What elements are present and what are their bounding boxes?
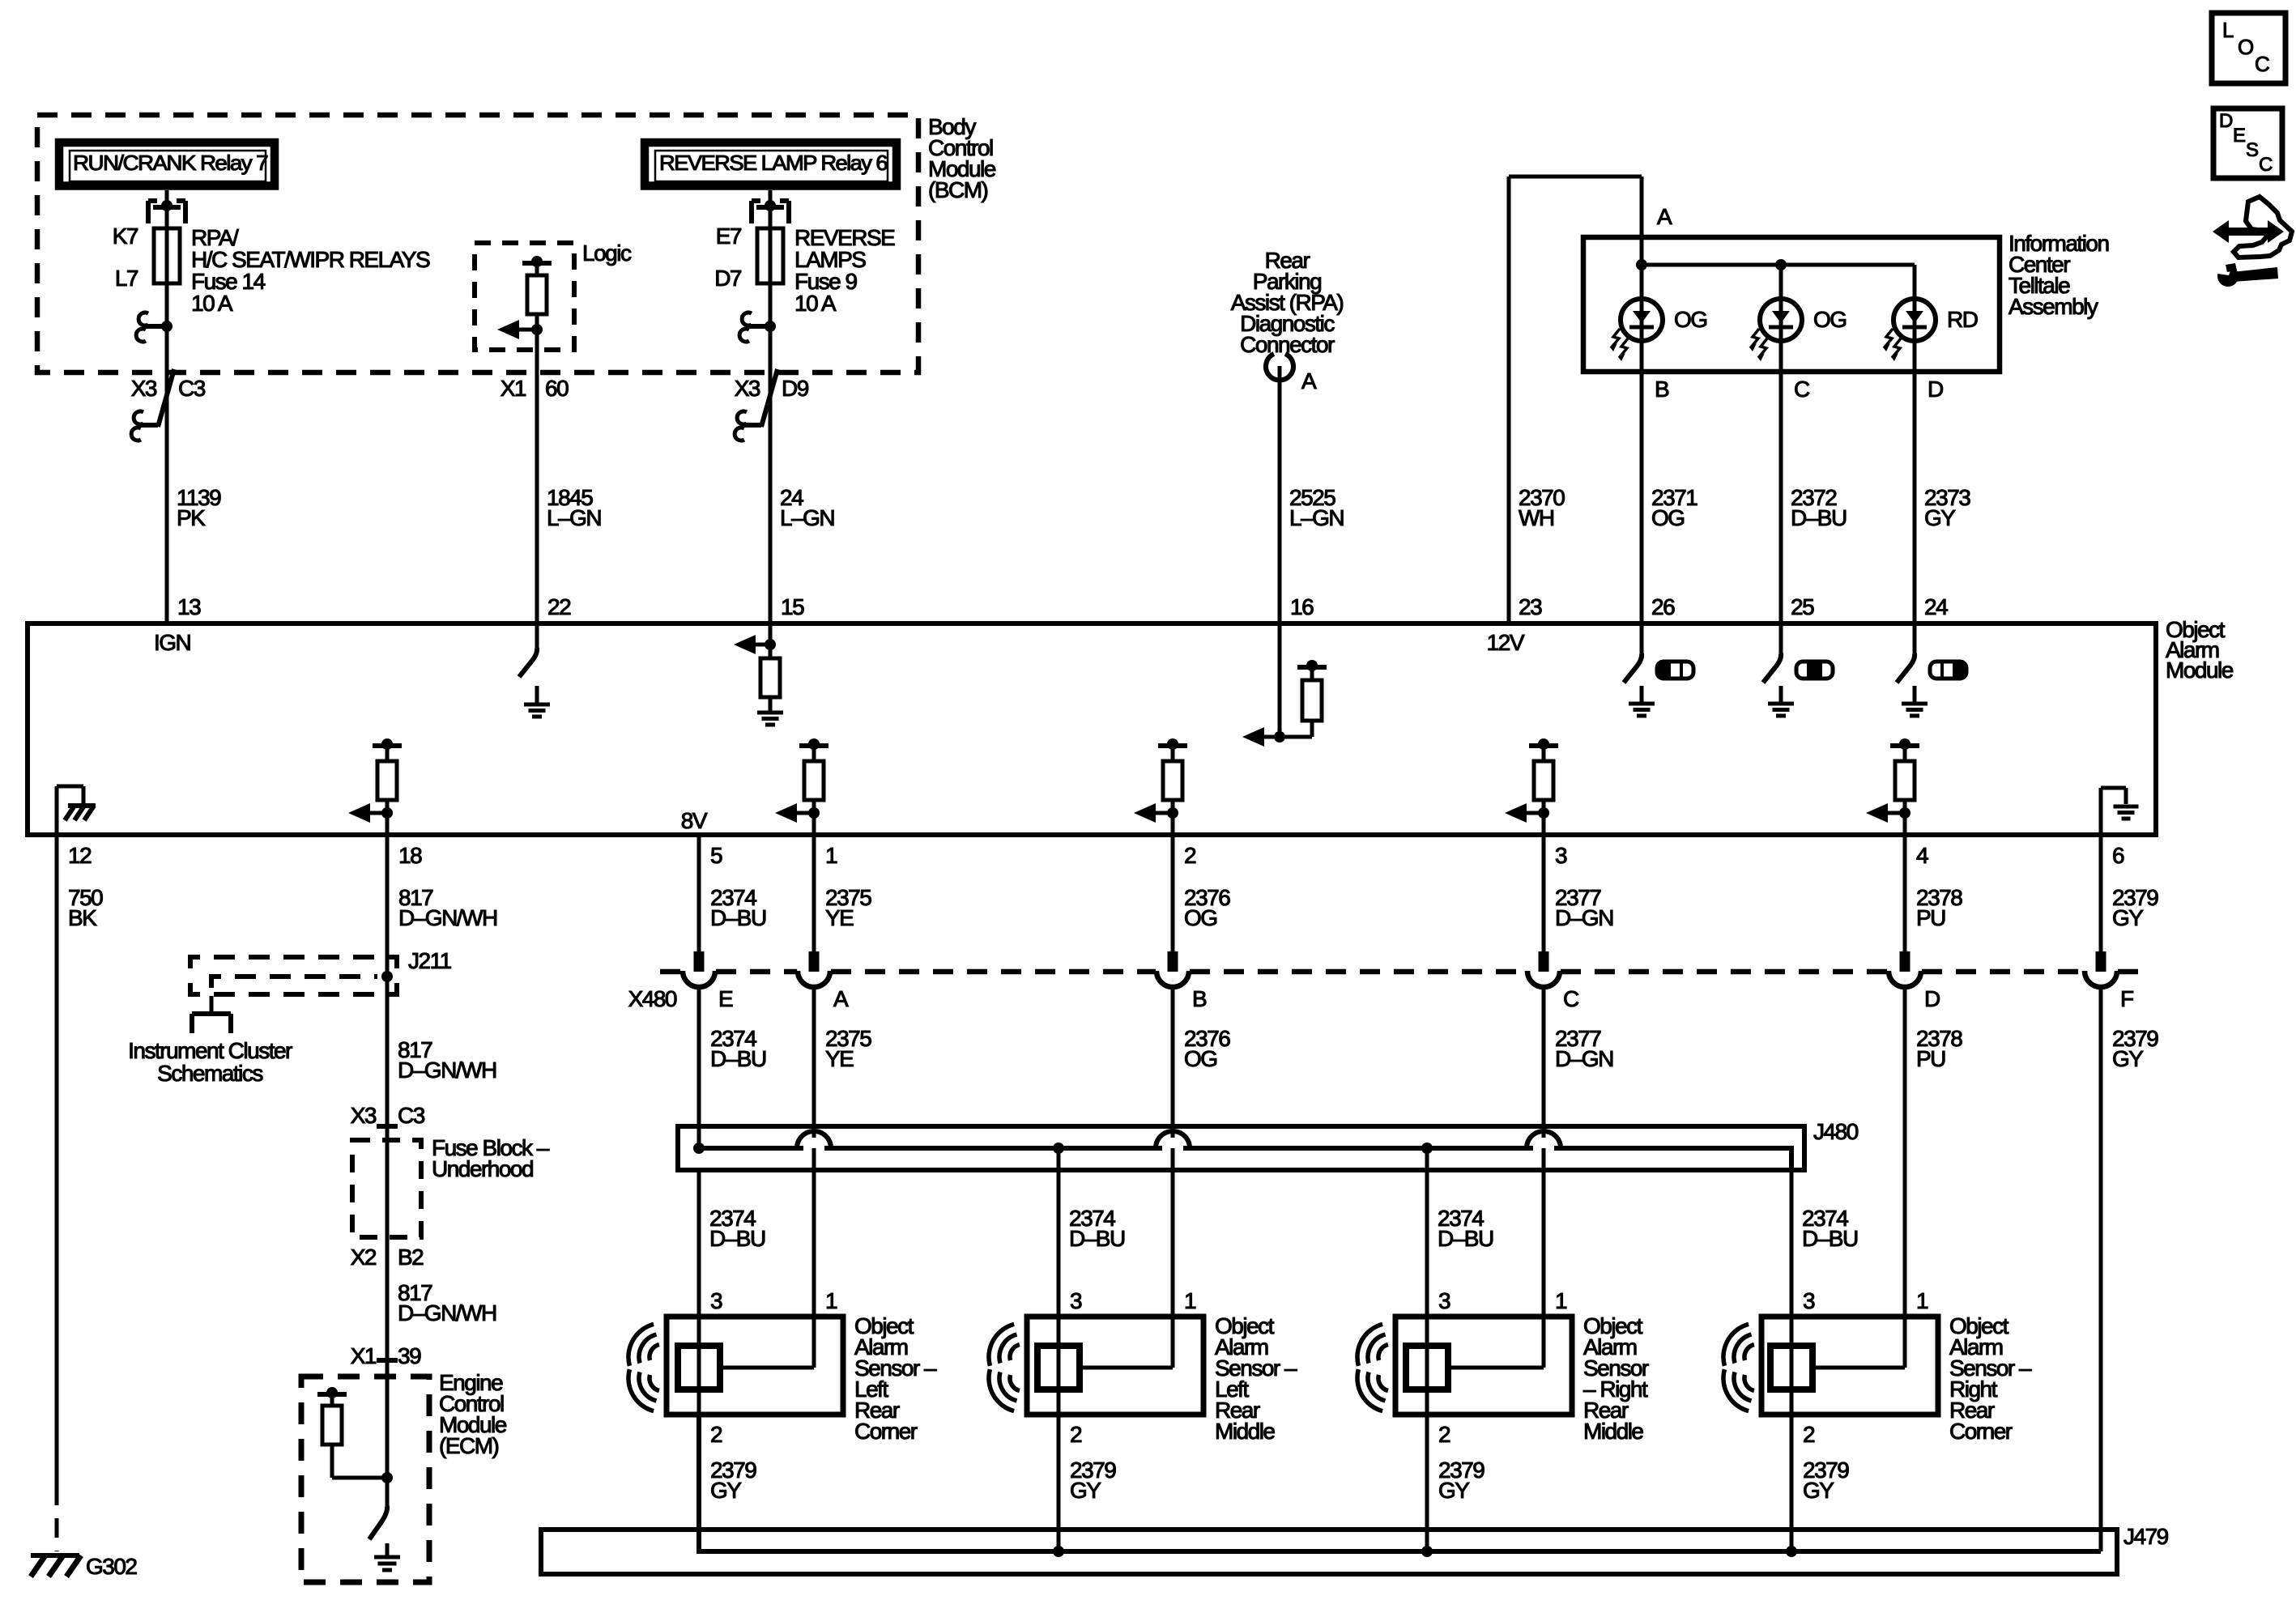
- wire: X480 to sensor (x=1906): [1542, 989, 1546, 1317]
- wire label 2374 D–BU: [710, 885, 766, 930]
- wire: relay 6 contact to fuse 9: [769, 207, 773, 228]
- module output driver at x=478: [348, 738, 402, 835]
- telltale segment indicator icon: [1930, 660, 1966, 679]
- svg-text:D–BU: D–BU: [709, 1226, 765, 1251]
- sensor 1 pin 1 internal link: [720, 1317, 814, 1368]
- pin 24: [1924, 594, 1948, 619]
- pin 23: [1519, 594, 1542, 619]
- wire 2373 GY: telltale to module pin 24: [1913, 372, 1917, 623]
- svg-text:X3: X3: [131, 376, 157, 401]
- sensor 1 pin 2: [710, 1422, 722, 1447]
- relay 6 contact: [752, 190, 789, 223]
- wire 2379 GY: X480 F to J479: [2099, 989, 2103, 1551]
- svg-text:D–GN/WH: D–GN/WH: [398, 1300, 496, 1326]
- svg-text:D–GN: D–GN: [1555, 905, 1613, 930]
- wire label 2379 GY below X480: [2112, 1026, 2158, 1071]
- LED D color label: [1947, 307, 1978, 332]
- wire label 817 D–GN/WH: [398, 885, 497, 930]
- svg-text:B: B: [1655, 377, 1669, 402]
- wire 1139 PK: BCM to module pin 13: [165, 372, 169, 623]
- svg-text:YE: YE: [825, 1046, 854, 1071]
- svg-text:RD: RD: [1947, 307, 1978, 332]
- svg-text:Schematics: Schematics: [157, 1061, 262, 1086]
- svg-text:2: 2: [1184, 843, 1196, 868]
- LOC icon box: [2212, 13, 2285, 83]
- node: relay 6 output terminal: [739, 313, 776, 342]
- wire label 2525 L-GN: [1289, 485, 1344, 530]
- svg-text:Logic: Logic: [582, 240, 632, 266]
- connector X1 60: [501, 376, 569, 401]
- svg-text:23: 23: [1519, 594, 1542, 619]
- svg-text:1: 1: [825, 843, 837, 868]
- svg-text:6: 6: [2112, 843, 2124, 868]
- svg-text:39: 39: [398, 1343, 421, 1368]
- svg-text:Underhood: Underhood: [432, 1156, 533, 1181]
- RPA connector ring terminal: [1266, 354, 1293, 380]
- Instrument Cluster Schematics label: [128, 1038, 292, 1086]
- wire: J480 to sensor 1 pin 3: [697, 1170, 701, 1317]
- sensor 1 pin labels 3 1: [710, 1288, 837, 1313]
- svg-text:BK: BK: [68, 905, 97, 930]
- sensor 4 pin 2: [1803, 1422, 1815, 1447]
- wire 2525 L-GN: RPA connector to module pin 16: [1278, 366, 1282, 623]
- splice pack J480 label: [1813, 1119, 1859, 1144]
- relay RUN/CRANK Relay 7 label box: [59, 143, 275, 186]
- svg-text:X2: X2: [351, 1245, 377, 1270]
- svg-text:(BCM): (BCM): [928, 177, 988, 202]
- svg-text:D: D: [1924, 986, 1940, 1011]
- wire label 817 D-GN/WH (below X2): [398, 1280, 496, 1326]
- svg-text:GY: GY: [2112, 905, 2144, 930]
- svg-text:D–BU: D–BU: [1438, 1226, 1493, 1251]
- wire label 817 D-GN/WH (below J211): [398, 1037, 496, 1083]
- svg-text:13: 13: [177, 594, 201, 619]
- module pin 6 internal ground: [2101, 788, 2139, 835]
- wire label 2378 PU below X480: [1916, 1026, 1962, 1071]
- wire 2379 GY: sensor 1 pin 2 down: [697, 1415, 701, 1551]
- svg-text:D–BU: D–BU: [1069, 1226, 1125, 1251]
- connector X3 C3 (BCM): [131, 369, 206, 440]
- svg-text:OG: OG: [1184, 1046, 1217, 1071]
- sensor 4 transducer square: [1770, 1317, 1813, 1415]
- fuse 14 value labels: [191, 225, 430, 316]
- relay REVERSE LAMP Relay 6 label box: [645, 143, 897, 186]
- wire 817: module pin 18 down: [386, 835, 390, 1377]
- svg-text:12: 12: [68, 843, 92, 868]
- module pin 15 ground: [757, 697, 783, 725]
- wire label 2374 D-BU: [709, 1206, 765, 1251]
- svg-text:D–BU: D–BU: [710, 1046, 766, 1071]
- wire: module to X480 A: [812, 835, 816, 972]
- wire label 2378 PU: [1916, 885, 1962, 930]
- module output driver at x=1448: [1134, 738, 1187, 835]
- svg-text:OG: OG: [1813, 307, 1847, 332]
- wire 2379 GY: sensor 3 pin 2 down: [1425, 1415, 1429, 1551]
- wire label 2379 GY (sensor 2): [1070, 1457, 1116, 1503]
- svg-text:25: 25: [1791, 594, 1814, 619]
- wire: X480 to sensor (x=1005): [812, 989, 816, 1317]
- svg-text:D–GN/WH: D–GN/WH: [398, 1057, 496, 1083]
- connector X480 pin A: [798, 951, 849, 1011]
- svg-text:REVERSE LAMP Relay 6: REVERSE LAMP Relay 6: [659, 151, 888, 175]
- telltale pin A label: [1657, 204, 1672, 229]
- wire: fuse 14 to node: [165, 283, 169, 372]
- sensor 3 pin 2: [1438, 1422, 1450, 1447]
- connector X480 pin B: [1157, 951, 1207, 1011]
- Rear Parking Assist (RPA) Diagnostic Connector label: [1231, 248, 1344, 357]
- wire label 1845 L-GN: [547, 485, 601, 530]
- telltale label: [2008, 231, 2109, 319]
- BCM label: [928, 114, 996, 202]
- svg-text:2: 2: [1803, 1422, 1815, 1447]
- svg-text:C: C: [1563, 986, 1579, 1011]
- Object Alarm Module box: [28, 623, 2156, 835]
- wire label 2374 D-BU: [1069, 1206, 1125, 1251]
- wire 2374: X480 E to J480 bus: [697, 989, 701, 1148]
- wire label 750 BK: [68, 885, 103, 930]
- splice pack J479: [541, 1415, 2117, 1574]
- svg-text:S: S: [2246, 139, 2258, 161]
- wire label 2379 GY (sensor 4): [1803, 1457, 1849, 1503]
- svg-text:22: 22: [547, 594, 571, 619]
- sensor 3 sound waves: [1357, 1324, 1388, 1411]
- wire 24 L-GN: BCM to module pin 15: [769, 372, 773, 623]
- sensor 4 pin labels 3 1: [1803, 1288, 1928, 1313]
- svg-text:1: 1: [1184, 1288, 1196, 1313]
- svg-text:C3: C3: [178, 376, 206, 401]
- wire: X480 to sensor (x=1448): [1171, 989, 1175, 1317]
- svg-text:A: A: [1301, 368, 1317, 394]
- module pin 26 switch to ground: [1624, 623, 1655, 716]
- wire: module to X480 C: [1542, 835, 1546, 972]
- telltale pins B C D: [1655, 377, 1943, 402]
- svg-text:D: D: [2219, 110, 2233, 132]
- svg-text:PU: PU: [1916, 905, 1945, 930]
- Engine Control Module (ECM) dashed box: [301, 1377, 429, 1582]
- svg-text:A: A: [1657, 204, 1672, 229]
- sensor 1 name label: [854, 1313, 937, 1444]
- LED B color label: [1674, 307, 1707, 332]
- svg-text:L–GN: L–GN: [547, 505, 601, 530]
- svg-text:D: D: [1928, 377, 1943, 402]
- svg-text:1: 1: [825, 1288, 837, 1313]
- X480 dashed connector line: [660, 969, 2138, 975]
- pin 4: [1916, 843, 1928, 868]
- svg-text:K7: K7: [113, 223, 138, 249]
- svg-text:2: 2: [1438, 1422, 1450, 1447]
- fuse 14 pin labels K7 L7: [113, 223, 138, 291]
- sensor 1 sound waves: [628, 1324, 659, 1411]
- wire label 2379 GY (sensor 3): [1438, 1457, 1485, 1503]
- wire 2372 D–BU: telltale to module pin 25: [1779, 372, 1783, 623]
- ECM ground: [374, 1543, 400, 1570]
- sensor 3 pin labels 3 1: [1438, 1288, 1567, 1313]
- svg-text:J480: J480: [1813, 1119, 1859, 1144]
- svg-text:L–GN: L–GN: [1289, 505, 1344, 530]
- svg-text:J479: J479: [2123, 1524, 2169, 1549]
- pin 5: [710, 843, 722, 868]
- svg-text:X1: X1: [501, 376, 526, 401]
- svg-text:F: F: [2120, 986, 2133, 1011]
- LED C color label: [1813, 307, 1847, 332]
- sensor 2 transducer square: [1037, 1317, 1080, 1415]
- svg-text:8V: 8V: [681, 808, 708, 833]
- svg-text:10 A: 10 A: [794, 291, 837, 316]
- wire: relay 7 contact to fuse 14: [165, 207, 169, 228]
- svg-text:16: 16: [1290, 594, 1314, 619]
- wire label 2372: [1791, 485, 1847, 530]
- svg-text:C: C: [2259, 154, 2273, 176]
- svg-text:Middle: Middle: [1583, 1419, 1643, 1444]
- pin 22: [547, 594, 571, 619]
- RPA pin A label: [1301, 368, 1317, 394]
- svg-text:1: 1: [1916, 1288, 1928, 1313]
- svg-text:OG: OG: [1674, 307, 1707, 332]
- wire label 2374 D–BU below X480: [710, 1026, 766, 1071]
- svg-text:12V: 12V: [1487, 630, 1525, 655]
- fuse 9 value labels: [794, 225, 895, 316]
- logic resistor: [527, 275, 547, 314]
- wire label 24 L-GN: [780, 485, 834, 530]
- LED D indicator: [1884, 265, 1936, 372]
- svg-text:GY: GY: [1438, 1478, 1470, 1503]
- wire: module to X480 F: [2099, 835, 2103, 972]
- wire label 2374 D-BU: [1802, 1206, 1858, 1251]
- connector X480 label: [628, 986, 677, 1011]
- LED B indicator: [1611, 265, 1663, 372]
- connector X2 B2: [351, 1245, 424, 1270]
- svg-text:WH: WH: [1519, 505, 1554, 530]
- sensor 2 pin labels 3 1: [1070, 1288, 1196, 1313]
- svg-text:D–GN/WH: D–GN/WH: [398, 905, 497, 930]
- svg-text:3: 3: [710, 1288, 722, 1313]
- object alarm sensor box sensor 4: [1761, 1317, 1938, 1415]
- module pin 15 resistor: [760, 658, 780, 697]
- module pin 22 ground: [524, 686, 550, 717]
- svg-text:E: E: [718, 986, 733, 1011]
- sensor 4 pin 1 internal link: [1813, 1317, 1905, 1368]
- svg-text:L: L: [2222, 18, 2234, 42]
- sensor 1 transducer square: [678, 1317, 720, 1415]
- wire 750 BK: module pin 12 to G302: [55, 835, 59, 1551]
- splice pack J479 label: [2123, 1524, 2169, 1549]
- ECM label: [439, 1370, 507, 1458]
- Fuse Block label: [432, 1135, 550, 1181]
- wire: module to X480 E: [697, 835, 701, 972]
- svg-text:G302: G302: [86, 1554, 137, 1579]
- wire 2374: J480 riser x=1762: [1425, 1148, 1429, 1317]
- svg-text:GY: GY: [2112, 1046, 2144, 1071]
- net 12V label: [1487, 630, 1525, 655]
- pin 12: [68, 843, 92, 868]
- svg-text:OG: OG: [1651, 505, 1685, 530]
- pin 15: [781, 594, 804, 619]
- svg-text:5: 5: [710, 843, 722, 868]
- svg-text:2: 2: [1070, 1422, 1082, 1447]
- connector X480 pin F: [2085, 951, 2133, 1011]
- svg-text:Middle: Middle: [1215, 1419, 1275, 1444]
- pin 2: [1184, 843, 1196, 868]
- ECM switch to ground: [369, 1377, 387, 1539]
- logic output arrow node: [497, 314, 543, 339]
- svg-text:L–GN: L–GN: [780, 505, 834, 530]
- wire label 2379 GY (sensor 1): [710, 1457, 756, 1503]
- svg-text:24: 24: [1924, 594, 1948, 619]
- pin 25: [1791, 594, 1814, 619]
- connector X1 39 (ECM): [351, 1343, 421, 1368]
- svg-text:B: B: [1192, 986, 1207, 1011]
- fuse 14 (RPA/H-C SEAT/WIPR RELAYS): [154, 228, 180, 283]
- svg-text:Module: Module: [2166, 657, 2234, 683]
- fuse 9 (REVERSE LAMPS): [757, 228, 783, 283]
- wire 2379 GY: sensor 4 pin 2 down: [1790, 1415, 1794, 1551]
- hand/wrench service icon: [2213, 197, 2292, 287]
- module output driver at x=1005: [775, 738, 829, 835]
- ECM pull-up resistor: [317, 1387, 393, 1483]
- net IGN label: [154, 630, 190, 655]
- svg-text:D9: D9: [782, 376, 809, 401]
- svg-text:3: 3: [1070, 1288, 1082, 1313]
- svg-text:C: C: [2255, 52, 2269, 76]
- connector X480 pin D: [1889, 951, 1940, 1011]
- svg-text:60: 60: [545, 376, 569, 401]
- svg-text:10 A: 10 A: [191, 291, 233, 316]
- connector X3 C3 (fuse block): [351, 1103, 425, 1128]
- svg-text:1: 1: [1555, 1288, 1567, 1313]
- svg-text:4: 4: [1916, 843, 1928, 868]
- svg-text:D7: D7: [714, 266, 742, 291]
- wire label 1139 PK: [177, 485, 221, 530]
- wire label 2377 D–GN below X480: [1555, 1026, 1613, 1071]
- svg-text:X1: X1: [351, 1343, 377, 1368]
- wire 2371 OG: telltale to module pin 26: [1640, 372, 1644, 623]
- wire: X480 to sensor (x=2352): [1903, 989, 1907, 1317]
- svg-text:OG: OG: [1184, 905, 1217, 930]
- svg-text:3: 3: [1438, 1288, 1450, 1313]
- telltale internal bus: [1636, 237, 1915, 270]
- sensor 4 name label: [1949, 1313, 2032, 1444]
- Logic dashed box: [475, 240, 632, 350]
- wire label 2379 GY: [2112, 885, 2158, 930]
- svg-text:IGN: IGN: [154, 630, 190, 655]
- svg-text:C3: C3: [398, 1103, 425, 1128]
- module pin 15 sense node: [734, 623, 776, 658]
- wire label 2375 YE below X480: [825, 1026, 871, 1071]
- svg-text:YE: YE: [825, 905, 854, 930]
- svg-text:E: E: [2233, 125, 2245, 147]
- sensor 3 pin 1 internal link: [1448, 1317, 1544, 1368]
- wire 2379 GY: sensor 2 pin 2 down: [1057, 1415, 1061, 1551]
- svg-text:X480: X480: [628, 986, 677, 1011]
- node: relay 7 output terminal: [136, 313, 173, 342]
- svg-text:GY: GY: [1070, 1478, 1101, 1503]
- svg-text:GY: GY: [710, 1478, 742, 1503]
- pin 1: [825, 843, 837, 868]
- module pin 22 switch: [519, 623, 537, 677]
- Body Control Module (BCM) dashed box: [37, 115, 918, 372]
- svg-text:GY: GY: [1924, 505, 1956, 530]
- relay 7 contact: [148, 190, 185, 223]
- wire label 2371: [1651, 485, 1698, 530]
- svg-text:A: A: [833, 986, 849, 1011]
- wire label 2377 D–GN: [1555, 885, 1613, 930]
- wire 1845 L-GN: logic to module pin 22: [535, 330, 539, 623]
- splice J211 label: [408, 948, 452, 973]
- wire 2374: J480 riser x=2212: [1790, 1170, 1794, 1317]
- svg-text:3: 3: [1803, 1288, 1815, 1313]
- svg-text:Assembly: Assembly: [2008, 294, 2098, 319]
- svg-text:(ECM): (ECM): [439, 1433, 499, 1458]
- object alarm sensor box sensor 3: [1395, 1317, 1572, 1415]
- svg-text:3: 3: [1555, 843, 1567, 868]
- Fuse Block - Underhood dashed box: [352, 1140, 421, 1237]
- svg-text:L7: L7: [115, 266, 138, 291]
- svg-text:D–BU: D–BU: [710, 905, 766, 930]
- splice J211 double dashed box: [190, 957, 397, 994]
- svg-text:Corner: Corner: [1949, 1419, 2013, 1444]
- module output driver at x=1906: [1505, 738, 1558, 835]
- svg-text:Corner: Corner: [854, 1419, 918, 1444]
- Object Alarm Module label: [2166, 617, 2234, 683]
- svg-text:X3: X3: [351, 1103, 377, 1128]
- svg-text:18: 18: [398, 843, 422, 868]
- telltale segment indicator icon: [1657, 660, 1693, 679]
- svg-text:D–BU: D–BU: [1791, 505, 1847, 530]
- telltale segment indicator icon: [1796, 660, 1833, 679]
- DESC icon box: [2213, 109, 2282, 178]
- sensor 2 name label: [1215, 1313, 1297, 1444]
- module pin 12 internal ground: [57, 786, 96, 835]
- svg-text:PK: PK: [177, 505, 206, 530]
- pin 18: [398, 843, 422, 868]
- svg-text:GY: GY: [1803, 1478, 1834, 1503]
- wire: fuse 9 to node: [769, 283, 773, 372]
- wire: module to X480 D: [1903, 835, 1907, 972]
- svg-text:Instrument Cluster: Instrument Cluster: [128, 1038, 292, 1063]
- svg-text:15: 15: [781, 594, 804, 619]
- connector X480 pin C: [1527, 951, 1579, 1011]
- wire label 2374 D-BU: [1438, 1206, 1493, 1251]
- connector X480 pin E: [683, 951, 733, 1011]
- module output driver at x=2352: [1866, 738, 1919, 835]
- instrument cluster bracket: [192, 996, 231, 1033]
- module pin 16 node: [1242, 623, 1285, 747]
- object alarm sensor box sensor 1: [667, 1317, 843, 1415]
- wire 2370 WH label (pin 23): [1519, 485, 1565, 530]
- svg-text:2: 2: [710, 1422, 722, 1447]
- ground G302: [31, 1554, 137, 1579]
- module pin 16 pull-up resistor: [1280, 660, 1327, 737]
- Information Center Telltale Assembly box: [1583, 237, 2000, 372]
- LED C indicator: [1750, 265, 1802, 372]
- sensor 3 transducer square: [1406, 1317, 1448, 1415]
- wire: 12V feed L (module pin 23 up and right to telltale A): [1509, 177, 1642, 623]
- object alarm sensor box sensor 2: [1027, 1317, 1203, 1415]
- svg-text:E7: E7: [716, 223, 742, 249]
- pin 6: [2112, 843, 2124, 868]
- splice pack J480: [678, 1126, 1804, 1170]
- wire label 2375 YE: [825, 885, 871, 930]
- pin 16: [1290, 594, 1314, 619]
- svg-text:D–BU: D–BU: [1802, 1226, 1858, 1251]
- svg-text:J211: J211: [408, 948, 452, 973]
- connector X3 D9 (BCM): [735, 369, 809, 440]
- svg-text:PU: PU: [1916, 1046, 1945, 1071]
- svg-text:B2: B2: [398, 1245, 424, 1270]
- svg-text:X3: X3: [735, 376, 760, 401]
- svg-text:C: C: [1794, 377, 1810, 402]
- pin 26: [1651, 594, 1675, 619]
